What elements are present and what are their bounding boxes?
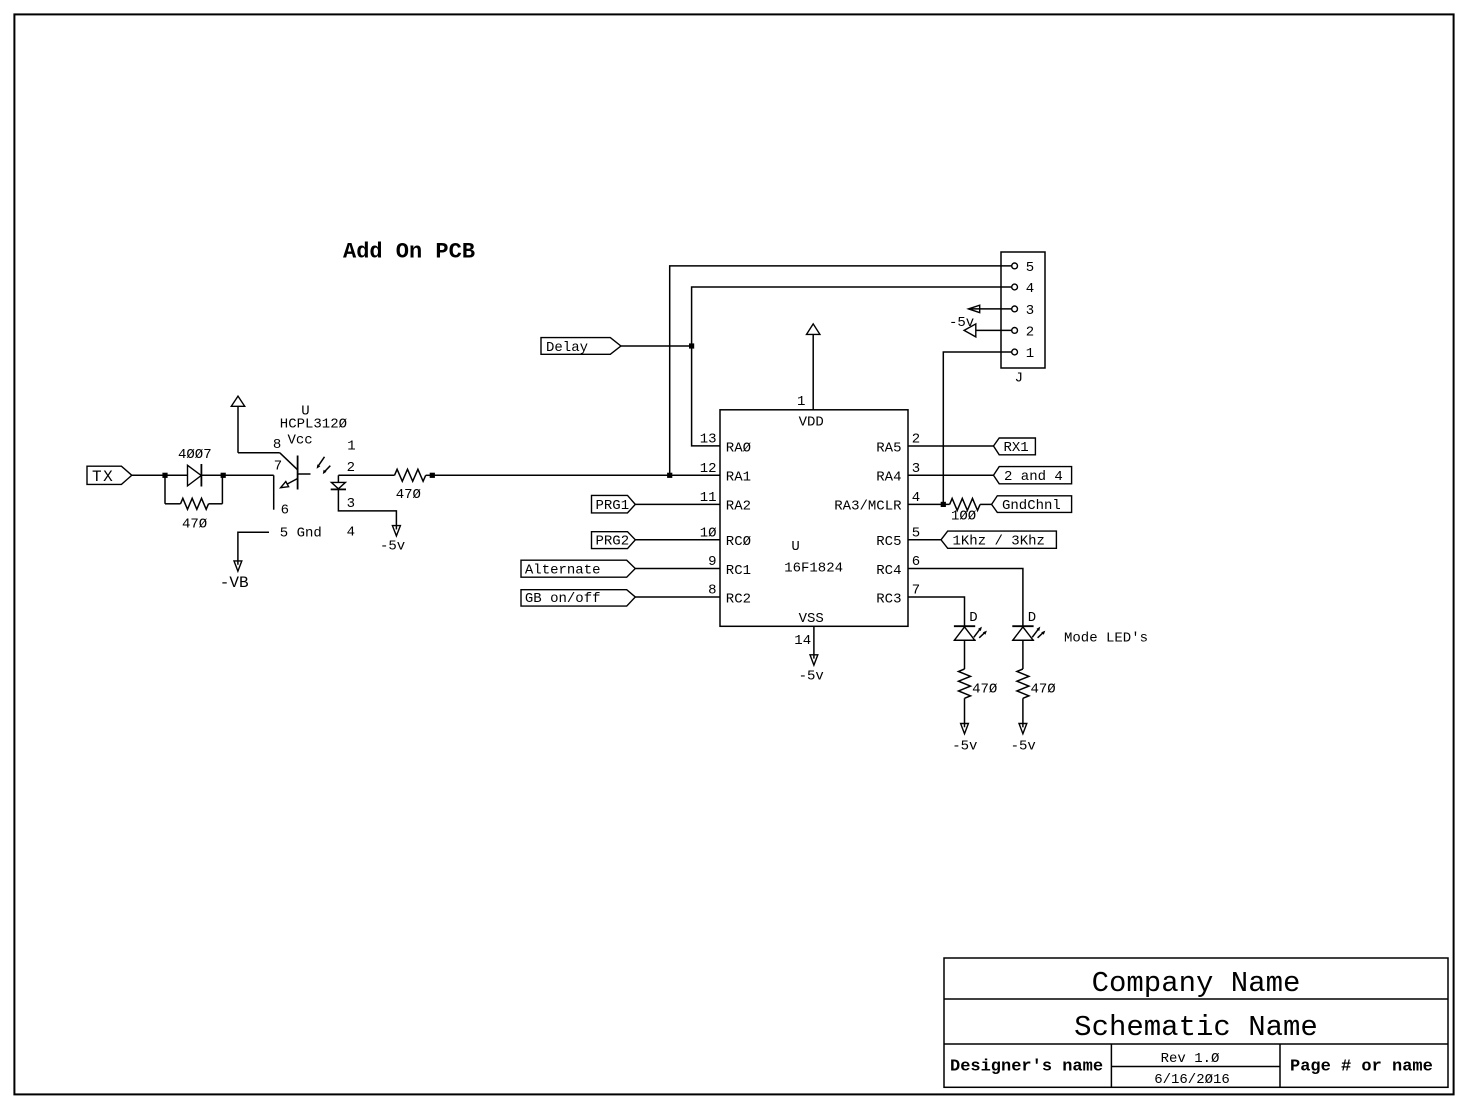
junction on RA3/MCLR wire (941, 502, 946, 507)
svg-text:-VB: -VB (220, 574, 249, 592)
svg-text:RC4: RC4 (876, 563, 901, 579)
svg-text:16F1824: 16F1824 (784, 560, 843, 576)
opto pin numbers 1 2 3 4 (347, 439, 356, 541)
svg-text:Alternate: Alternate (525, 563, 601, 579)
svg-text:-5v: -5v (380, 539, 405, 555)
LED D2 light arrows (1032, 627, 1045, 638)
wire opto pin 2 to resistor (338, 474, 394, 476)
net label TX (87, 466, 132, 486)
svg-text:VDD: VDD (799, 414, 824, 430)
wire RA4 to 2 and 4 (908, 474, 994, 476)
resistor R 470 (series) (395, 469, 426, 481)
svg-text:4: 4 (1026, 281, 1034, 297)
svg-text:47Ø: 47Ø (396, 487, 421, 503)
diode D 4007 (165, 464, 222, 487)
connector J (1001, 252, 1045, 368)
IC U 16F1824 body (720, 410, 908, 627)
svg-text:RC2: RC2 (726, 591, 751, 607)
wire RC4 to LED D2 (908, 569, 1023, 627)
LED D2 (1012, 626, 1034, 669)
svg-text:14: 14 (794, 633, 811, 649)
net label PRG2 and wire to RC0 (592, 532, 721, 550)
IC right pin names (834, 440, 902, 607)
wire J pin 2 to -5v arrow (976, 329, 1012, 331)
svg-text:GndChnl: GndChnl (1002, 498, 1061, 514)
pin number 1 and VDD name (797, 394, 824, 430)
resistor R 100 (950, 498, 980, 510)
svg-text:PRG1: PRG1 (596, 498, 630, 514)
svg-text:12: 12 (700, 461, 717, 477)
svg-text:47Ø: 47Ø (182, 517, 207, 533)
net label Alternate and wire to RC1 (521, 560, 720, 578)
svg-text:Schematic Name: Schematic Name (1074, 1011, 1318, 1044)
svg-text:4: 4 (912, 490, 920, 506)
junction Delay/J4/RA0 node (689, 343, 694, 348)
wire Vcc to opto pin 8 (238, 452, 280, 454)
svg-text:1ØØ: 1ØØ (951, 509, 976, 525)
wire J pin 3 to -5v arrow (969, 308, 1012, 310)
LED D1 light arrows (974, 627, 987, 638)
svg-text:2: 2 (912, 432, 920, 448)
resistor R 470 under LED D2 (1017, 669, 1029, 698)
svg-text:RA2: RA2 (726, 499, 751, 515)
power symbol -5v (big left arrow) at J pin 2 (964, 324, 976, 337)
opto pin numbers 8 7 6 5 Gnd (273, 437, 322, 541)
power symbol Vcc (up arrow) (231, 396, 244, 453)
wire to IC pin RA1 (432, 474, 720, 476)
svg-text:D: D (969, 610, 977, 626)
svg-text:Rev 1.Ø: Rev 1.Ø (1161, 1051, 1220, 1067)
svg-text:11: 11 (700, 490, 717, 506)
svg-text:RA5: RA5 (876, 440, 901, 456)
connector J pin numbers 5 4 3 2 1 (1026, 260, 1034, 362)
svg-text:RC5: RC5 (876, 534, 901, 550)
net label Delay (541, 338, 621, 356)
svg-text:Add On PCB: Add On PCB (343, 240, 475, 265)
net label 1Khz / 3Khz (941, 531, 1056, 549)
IC designator U and value 16F1824 (784, 539, 843, 576)
svg-text:RAØ: RAØ (726, 440, 751, 456)
junction at diode cathode node (221, 473, 226, 478)
wire J pin 5 to RA1 node (670, 266, 1012, 475)
wire diode cathode to opto pin 7 (222, 474, 273, 476)
svg-text:6: 6 (281, 502, 289, 518)
power symbol -5v (down arrow) under D2 resistor (1019, 724, 1027, 734)
svg-text:Designer's name: Designer's name (950, 1058, 1103, 1077)
wire RC5 to 1Khz / 3Khz (908, 539, 941, 541)
svg-text:5: 5 (912, 525, 920, 541)
svg-text:VSS: VSS (799, 611, 824, 627)
wire VDD pin 1 (812, 334, 814, 409)
svg-text:2: 2 (347, 460, 355, 476)
power symbol -5v (down arrow) at opto pin 3 (392, 526, 400, 536)
net label RX1 (994, 438, 1036, 456)
svg-text:8: 8 (708, 583, 716, 599)
resistor R 470 (parallel with diode) (165, 475, 222, 509)
svg-text:9: 9 (708, 554, 716, 570)
junction at diode anode node (162, 473, 167, 478)
svg-text:TX: TX (92, 468, 114, 486)
title block (944, 958, 1448, 1087)
svg-text:47Ø: 47Ø (972, 681, 997, 697)
svg-text:3: 3 (347, 496, 355, 512)
svg-text:6: 6 (912, 554, 920, 570)
net label 2 and 4 (994, 467, 1072, 485)
svg-text:RA3/MCLR: RA3/MCLR (834, 499, 902, 515)
IC left pin names (726, 440, 751, 607)
svg-text:-5v: -5v (949, 315, 974, 331)
opto pin 6 stub wire (273, 475, 275, 509)
wire Delay to node (621, 345, 692, 347)
opto gnd wire pin 5 (238, 532, 269, 564)
svg-text:7: 7 (274, 459, 282, 475)
power symbol -5v (small left arrow) at J pin 3 (968, 305, 979, 312)
svg-text:Mode LED's: Mode LED's (1064, 631, 1148, 647)
svg-text:RC1: RC1 (726, 563, 751, 579)
power symbol -5v (down arrow) at VSS (810, 655, 818, 665)
LED D1 (954, 626, 976, 669)
svg-text:Delay: Delay (546, 340, 588, 356)
net label PRG1 and wire to RA2 (592, 495, 721, 514)
opto internal LED (pins 2-3) (331, 475, 346, 489)
wire VSS pin 14 (813, 626, 815, 658)
wire opto pin 3 to -5v (338, 489, 396, 529)
svg-text:3: 3 (1026, 303, 1034, 319)
svg-text:U: U (791, 539, 799, 555)
wire J pin 1 to RA3/MCLR node (943, 352, 1011, 504)
IC left pin numbers (700, 432, 717, 599)
wire RC3 to LED D1 (908, 597, 965, 626)
svg-text:1Ø: 1Ø (700, 525, 717, 541)
svg-text:-5v: -5v (952, 739, 977, 755)
wire J pin 4 to IC pin RA0 (692, 287, 1012, 446)
svg-text:D: D (1028, 610, 1036, 626)
svg-text:2 and 4: 2 and 4 (1004, 469, 1063, 485)
wire RA5 to RX1 (908, 445, 994, 447)
power symbol -5v (down arrow) under D1 resistor (961, 724, 969, 734)
svg-text:1: 1 (1026, 346, 1034, 362)
net label GndChnl (992, 496, 1072, 514)
svg-text:Vcc: Vcc (288, 433, 313, 449)
svg-text:RA4: RA4 (876, 470, 901, 486)
junction on RA1 wire (667, 473, 672, 478)
wire RA3/MCLR to resistor 100 (908, 503, 950, 505)
IC right pin numbers (912, 432, 920, 599)
svg-text:7: 7 (912, 583, 920, 599)
wire TX to diode anode (132, 474, 165, 476)
svg-text:4ØØ7: 4ØØ7 (178, 447, 212, 463)
svg-text:47Ø: 47Ø (1031, 681, 1056, 697)
pin number 14, VSS name, -5v text (794, 611, 824, 685)
svg-text:13: 13 (700, 432, 717, 448)
wire resistor to junction (426, 474, 433, 476)
svg-text:5: 5 (1026, 260, 1034, 276)
svg-text:3: 3 (912, 461, 920, 477)
svg-text:Company Name: Company Name (1092, 967, 1301, 1000)
svg-text:1: 1 (347, 439, 355, 455)
svg-text:Page # or name: Page # or name (1290, 1058, 1433, 1077)
svg-text:8: 8 (273, 437, 281, 453)
svg-text:1: 1 (797, 394, 805, 410)
svg-text:RX1: RX1 (1004, 440, 1029, 456)
opto designator U and value HCPL3120 (280, 404, 347, 449)
power symbol VDD (up arrow) (807, 324, 820, 335)
op-amp/optocoupler U HCPL3120 transistor symbol (280, 453, 311, 490)
svg-text:HCPL312Ø: HCPL312Ø (280, 416, 347, 432)
svg-text:1Khz / 3Khz: 1Khz / 3Khz (953, 534, 1045, 550)
svg-text:2: 2 (1026, 324, 1034, 340)
svg-text:GB on/off: GB on/off (525, 591, 601, 607)
light arrows into opto transistor (317, 457, 331, 474)
svg-text:J: J (1015, 371, 1023, 387)
svg-text:-5v: -5v (1011, 739, 1036, 755)
svg-text:RA1: RA1 (726, 470, 751, 486)
svg-text:4: 4 (347, 525, 355, 541)
svg-text:-5v: -5v (799, 669, 824, 685)
net label GB on/off and wire to RC2 (521, 590, 720, 607)
svg-text:5 Gnd: 5 Gnd (280, 525, 322, 541)
svg-text:RCØ: RCØ (726, 534, 751, 550)
svg-text:PRG2: PRG2 (596, 534, 630, 550)
svg-text:6/16/2Ø16: 6/16/2Ø16 (1154, 1072, 1230, 1088)
junction node after resistor (430, 473, 435, 478)
power symbol -VB (down arrow) (234, 561, 242, 571)
resistor R 470 under LED D1 (959, 669, 971, 698)
svg-text:RC3: RC3 (876, 591, 901, 607)
